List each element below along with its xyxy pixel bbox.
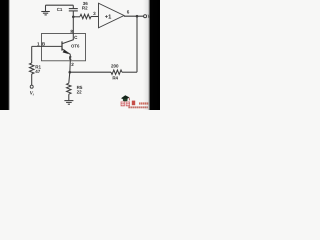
svg-text:6: 6 [127, 10, 130, 15]
wire emitter below box [69, 61, 72, 72]
wire junction down to R5 [69, 72, 70, 83]
ground (top-left) [41, 5, 50, 15]
wire op-amp output [124, 15, 144, 17]
svg-text:2: 2 [71, 62, 74, 67]
svg-text:47: 47 [35, 69, 41, 74]
watermark text row2 [128, 106, 147, 108]
svg-text:3: 3 [93, 11, 96, 16]
wire junction to R2 [73, 16, 80, 18]
wire R4 to emitter junction [70, 71, 111, 73]
watermark text row1 [139, 102, 148, 104]
node junction C1/R2/collector [72, 15, 75, 18]
wire feedback vertical [136, 16, 138, 72]
wire top (ground to C1 top) [46, 4, 74, 6]
wire base down to R1 [31, 46, 33, 63]
wire R5 to ground [68, 94, 70, 100]
svg-text:C1: C1 [57, 7, 63, 12]
terminal Vo [144, 15, 147, 18]
watermark char right [132, 101, 135, 106]
resistor R5 [67, 83, 71, 94]
wire C1 bottom to junction [72, 5, 74, 17]
wire collector (junction down into box) [72, 17, 74, 34]
watermark logo chars [121, 102, 130, 107]
node emitter junction [69, 71, 72, 74]
svg-text:200: 200 [111, 64, 119, 69]
right page shadow [143, 0, 150, 110]
svg-text:OT6: OT6 [71, 43, 80, 48]
component box outline [42, 34, 86, 61]
watermark logo cap icon [121, 95, 130, 101]
resistor R1 [30, 63, 34, 74]
wire R2 to op-amp [91, 16, 99, 18]
svg-text:E: E [69, 56, 72, 61]
node output junction [136, 15, 139, 18]
resistor R4 200 [111, 70, 122, 74]
wire R1 to input terminal [31, 74, 33, 85]
transistor OT6 base bar [61, 41, 63, 50]
resistor R2 [80, 14, 91, 18]
transistor OT6 collector segment [62, 34, 73, 44]
terminal Vi [30, 85, 33, 88]
svg-text:22: 22 [77, 89, 83, 94]
capacitor C1 [69, 9, 78, 11]
svg-text:i: i [33, 92, 34, 96]
svg-text:1: 1 [37, 41, 40, 46]
svg-text:R4: R4 [112, 75, 118, 80]
ground (bottom) [64, 101, 73, 105]
wire base (into box) [32, 45, 62, 47]
transistor OT6 emitter segment with arrow [62, 49, 70, 55]
op-amp U1 buffer +1 [99, 3, 125, 28]
svg-text:R2: R2 [82, 6, 88, 11]
wire emitter inside box down [69, 54, 71, 61]
svg-text:+1: +1 [105, 15, 112, 21]
wire feedback horizontal right [122, 71, 137, 73]
